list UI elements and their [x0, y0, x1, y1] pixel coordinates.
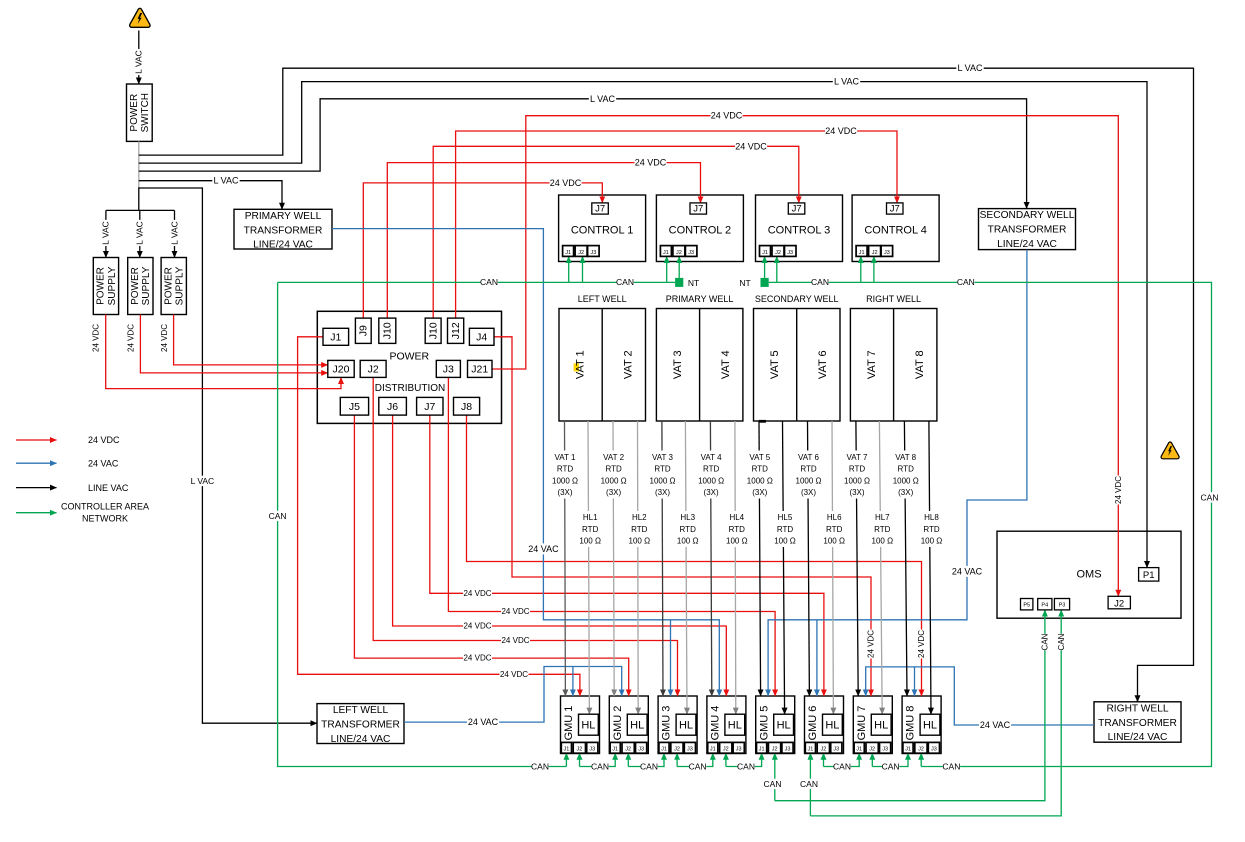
svg-text:J1: J1 — [563, 747, 569, 753]
svg-text:VAT 1: VAT 1 — [574, 350, 586, 379]
svg-text:LEFT WELL: LEFT WELL — [333, 705, 389, 716]
svg-text:J1: J1 — [759, 747, 765, 753]
label CAN (right riser) — [1201, 492, 1218, 502]
svg-text:LINE/24 VAC: LINE/24 VAC — [253, 240, 313, 251]
svg-text:1000 Ω: 1000 Ω — [650, 476, 676, 485]
svg-text:L VAC: L VAC — [135, 221, 145, 245]
label 24 VDC (GMU feed y=626.0) — [463, 621, 492, 631]
svg-text:CAN: CAN — [591, 761, 609, 771]
svg-text:CAN: CAN — [1041, 633, 1050, 650]
svg-text:VAT 4: VAT 4 — [701, 453, 722, 462]
svg-text:CONTROL 4: CONTROL 4 — [864, 225, 927, 237]
svg-text:TRANSFORMER: TRANSFORMER — [321, 720, 400, 731]
label: VAT 4 RTD 1000 ohm (3X) — [694, 451, 728, 499]
svg-text:J6: J6 — [387, 401, 398, 413]
legend: LINE VAC — [16, 487, 57, 489]
svg-text:NETWORK: NETWORK — [82, 514, 128, 524]
svg-text:1000 Ω: 1000 Ω — [796, 476, 822, 485]
connector J3 (control 3) — [785, 246, 797, 257]
wire: HL4 RTD sensor to GMU 4 HL — [734, 421, 737, 714]
GMU 2 box — [609, 696, 648, 754]
svg-text:LINE/24 VAC: LINE/24 VAC — [997, 239, 1057, 250]
svg-text:RTD: RTD — [923, 525, 940, 534]
connector J3 (control 4) — [881, 246, 893, 257]
legend: CONTROLLER AREA NETWORK — [16, 512, 57, 514]
connector J1 (control 2) — [660, 246, 671, 257]
svg-text:J10: J10 — [427, 322, 439, 339]
svg-text:24 VDC: 24 VDC — [88, 435, 120, 445]
HL box (GMU 2) — [627, 714, 647, 735]
wire 24 VDC: J10 to CONTROL 3 J7 — [433, 146, 799, 318]
power switch — [127, 84, 153, 141]
svg-text:RTD: RTD — [680, 525, 697, 534]
svg-text:24 VDC: 24 VDC — [126, 324, 135, 352]
black tick on VAT 5 box bottom — [759, 420, 766, 423]
svg-text:VAT 7: VAT 7 — [866, 350, 878, 379]
connector J7 (control 4) — [887, 203, 904, 214]
svg-text:RTD: RTD — [703, 465, 720, 474]
wire: VAT 7 RTD sensor to GMU 7 — [856, 421, 858, 696]
svg-text:SECONDARY WELL: SECONDARY WELL — [755, 294, 839, 304]
wire CAN: GMU 5 J2 to OMS P4 — [774, 753, 776, 801]
svg-text:J2: J2 — [368, 364, 379, 376]
svg-text:GMU 7: GMU 7 — [856, 706, 868, 741]
svg-text:100 Ω: 100 Ω — [726, 537, 748, 546]
GMU 1 box — [561, 696, 600, 754]
svg-text:LEFT WELL: LEFT WELL — [578, 294, 627, 304]
svg-text:J9: J9 — [358, 325, 370, 336]
wire 24 VDC: J21 to OMS J2 — [492, 116, 1118, 597]
HL box (GMU 1) — [579, 714, 599, 735]
wire 24 VDC: J2 to GMU 3 — [373, 377, 677, 696]
connector J7 (control 3) — [788, 203, 805, 214]
svg-text:(3X): (3X) — [655, 488, 670, 497]
connector J3 (GMU 2) — [636, 742, 647, 753]
wire L VAC into power supply 2 — [139, 210, 141, 257]
svg-text:24 VDC: 24 VDC — [825, 126, 857, 136]
svg-text:24 VDC: 24 VDC — [160, 324, 169, 352]
connector J21 (power distribution) — [468, 360, 493, 377]
svg-text:J1: J1 — [612, 747, 618, 753]
svg-text:VAT 6: VAT 6 — [798, 453, 819, 462]
svg-text:J3: J3 — [882, 747, 888, 753]
connector J2 (OMS) — [1108, 596, 1130, 609]
svg-text:GMU 2: GMU 2 — [612, 706, 624, 741]
svg-text:POWER: POWER — [163, 267, 174, 305]
svg-text:J2: J2 — [578, 250, 584, 256]
svg-text:J7: J7 — [424, 401, 435, 413]
svg-text:J7: J7 — [792, 204, 802, 215]
svg-text:J2: J2 — [869, 747, 875, 753]
svg-text:L VAC: L VAC — [957, 63, 983, 73]
svg-text:NT: NT — [739, 278, 750, 288]
svg-text:VAT 3: VAT 3 — [652, 453, 673, 462]
GMU 4 box — [707, 696, 746, 754]
label L VAC (power supply 2) — [135, 220, 145, 246]
control 1 box — [559, 195, 646, 262]
label: VAT 3 RTD 1000 ohm (3X) — [646, 451, 680, 499]
svg-text:RTD: RTD — [631, 525, 648, 534]
connector P3 (OMS) — [1054, 599, 1069, 610]
svg-text:L VAC: L VAC — [134, 50, 144, 74]
connector J3 (control 1) — [588, 246, 600, 257]
svg-text:J12: J12 — [450, 322, 462, 339]
yellow highlight on VAT 1 — [574, 363, 579, 371]
legend: 24 VAC — [16, 462, 57, 464]
svg-text:J3: J3 — [787, 250, 793, 256]
label L VAC (power supply 3) — [169, 220, 179, 246]
svg-text:P1: P1 — [1143, 570, 1155, 581]
label CAN (GMU chain x=842.0) — [833, 761, 850, 771]
label: VAT 2 RTD 1000 ohm (3X) — [597, 451, 631, 499]
label 24 VAC (right transformer) — [979, 719, 1011, 730]
wire 24 VDC: J9 to CONTROL 1 J7 — [363, 183, 602, 318]
svg-text:J7: J7 — [890, 204, 900, 215]
svg-text:J8: J8 — [461, 401, 472, 413]
connector J10 second (power distribution) — [425, 318, 441, 343]
svg-text:L VAC: L VAC — [101, 221, 111, 245]
svg-text:J2: J2 — [820, 747, 826, 753]
control 3 box — [756, 195, 843, 262]
label CAN (OMS P4 riser) — [1040, 634, 1050, 651]
svg-text:HL6: HL6 — [827, 513, 842, 522]
connector J2 (power distribution) — [360, 360, 386, 377]
wire CAN: GMU 3 J2 to GMU 4 J1 — [676, 753, 678, 766]
svg-text:RTD: RTD — [729, 525, 746, 534]
svg-text:(3X): (3X) — [849, 488, 864, 497]
svg-text:HL: HL — [581, 720, 595, 732]
label: HL1 RTD 100 ohm — [576, 511, 604, 547]
svg-text:J2: J2 — [723, 747, 729, 753]
connector J3 (GMU 5) — [782, 742, 793, 753]
connector J2 (GMU 3) — [671, 742, 683, 753]
legend: 24 VDC — [16, 439, 57, 441]
right well box (VAT 7 / VAT 8) — [850, 309, 937, 422]
svg-text:HL: HL — [874, 720, 888, 732]
svg-text:J1: J1 — [565, 250, 571, 256]
svg-text:SUPPLY: SUPPLY — [175, 266, 186, 305]
svg-text:(3X): (3X) — [557, 488, 572, 497]
label CAN (GMU chain x=890.6) — [882, 761, 899, 771]
svg-text:1000 Ω: 1000 Ω — [893, 476, 919, 485]
wire CAN: left bus to CONTROL 1 / CONTROL 2 — [278, 281, 675, 283]
connector J5 (power distribution) — [340, 397, 368, 415]
svg-text:VAT 5: VAT 5 — [769, 350, 781, 379]
svg-text:24 VDC: 24 VDC — [501, 607, 529, 616]
wire L VAC branch D: switch to primary well transformer — [139, 181, 282, 210]
label: VAT 1 RTD 1000 ohm (3X) — [548, 451, 582, 499]
svg-text:24 VAC: 24 VAC — [952, 567, 983, 577]
svg-text:SWITCH: SWITCH — [140, 93, 151, 132]
svg-text:OMS: OMS — [1076, 569, 1101, 581]
svg-text:CAN: CAN — [269, 511, 287, 521]
svg-text:J7: J7 — [595, 204, 605, 215]
label L VAC (to primary transformer) — [212, 175, 239, 186]
label CAN (control 1-2 bus) — [616, 277, 633, 287]
svg-text:CAN: CAN — [811, 277, 829, 287]
svg-text:HL: HL — [630, 720, 644, 732]
svg-text:CONTROL 2: CONTROL 2 — [669, 225, 732, 237]
left well box (VAT 1 / VAT 2) — [559, 309, 646, 422]
label 24 VDC (control 3 feed) — [735, 141, 767, 152]
HL box (GMU 5) — [774, 714, 794, 735]
svg-text:L VAC: L VAC — [590, 94, 616, 104]
svg-text:24 VDC: 24 VDC — [500, 670, 528, 679]
svg-text:J2: J2 — [918, 747, 924, 753]
wire: VAT 2 RTD sensor to GMU 2 — [613, 421, 614, 696]
svg-text:J3: J3 — [833, 747, 839, 753]
svg-text:J2: J2 — [772, 747, 778, 753]
svg-text:VAT 6: VAT 6 — [817, 350, 829, 379]
label: HL5 RTD 100 ohm — [771, 511, 799, 547]
power distribution box — [317, 311, 501, 423]
svg-text:RTD: RTD — [777, 525, 794, 534]
svg-text:CAN: CAN — [942, 761, 960, 771]
label L VAC (top line A) — [956, 63, 983, 74]
wire: HL6 RTD sensor to GMU 6 HL — [832, 421, 833, 714]
svg-text:J2: J2 — [625, 747, 631, 753]
secondary well transformer — [979, 209, 1076, 250]
svg-text:24 VDC: 24 VDC — [711, 111, 743, 121]
connector J3 (GMU 1) — [587, 742, 598, 753]
svg-text:J1: J1 — [710, 747, 716, 753]
connector J9 (power distribution) — [355, 318, 371, 343]
svg-text:RTD: RTD — [898, 465, 915, 474]
svg-text:RIGHT WELL: RIGHT WELL — [1106, 703, 1168, 714]
svg-text:GMU 3: GMU 3 — [661, 706, 673, 741]
wire: VAT 8 RTD sensor to GMU 8 — [904, 421, 907, 696]
svg-text:24 VAC: 24 VAC — [468, 717, 499, 727]
OMS box — [997, 531, 1181, 618]
svg-text:SUPPLY: SUPPLY — [107, 266, 118, 305]
connector J2 (control 3) — [772, 246, 784, 257]
wire CAN: left riser down to GMU 1 J1 — [278, 282, 567, 766]
svg-text:100 Ω: 100 Ω — [774, 537, 796, 546]
label 24 VDC (GMU feed y=674.3) — [500, 669, 529, 679]
GMU 5 box — [756, 696, 795, 754]
wire 24 VDC: J6 to GMU 4 — [393, 415, 727, 696]
label 24 VDC (GMU feed y=658.1) — [463, 653, 492, 663]
label: HL4 RTD 100 ohm — [723, 511, 751, 547]
wire CAN: GMU 2 J2 to GMU 3 J1 — [627, 753, 629, 766]
label: HL6 RTD 100 ohm — [820, 511, 848, 547]
connector J20 (power distribution) — [328, 360, 354, 377]
label 24 VDC (control 4 feed) — [825, 125, 857, 136]
label: VAT 7 RTD 1000 ohm (3X) — [840, 451, 874, 499]
svg-text:(3X): (3X) — [898, 488, 913, 497]
svg-text:RTD: RTD — [654, 465, 671, 474]
svg-text:J2: J2 — [576, 747, 582, 753]
svg-text:CAN: CAN — [689, 761, 707, 771]
svg-text:100 Ω: 100 Ω — [677, 537, 699, 546]
svg-text:24 VAC: 24 VAC — [88, 458, 119, 468]
connector J7 (control 1) — [592, 203, 609, 214]
svg-text:CONTROL 1: CONTROL 1 — [571, 225, 634, 237]
primary well transformer — [234, 209, 332, 249]
svg-text:24 VDC: 24 VDC — [735, 141, 767, 151]
svg-text:J3: J3 — [688, 250, 694, 256]
svg-text:DISTRIBUTION: DISTRIBUTION — [375, 383, 446, 394]
svg-text:24 VDC: 24 VDC — [917, 630, 926, 658]
svg-text:(3X): (3X) — [606, 488, 621, 497]
svg-text:J3: J3 — [443, 364, 454, 376]
svg-text:HL2: HL2 — [632, 513, 647, 522]
primary well box (VAT 3 / VAT 4) — [656, 309, 743, 422]
svg-text:J3: J3 — [687, 747, 693, 753]
wire L VAC branch B: switch to OMS P1 — [139, 82, 1147, 568]
svg-text:1000 Ω: 1000 Ω — [747, 476, 773, 485]
svg-text:CAN: CAN — [1057, 633, 1066, 650]
svg-text:TRANSFORMER: TRANSFORMER — [1098, 718, 1177, 729]
label 24 VAC (primary riser) — [527, 543, 559, 554]
connector J3 (power distribution) — [436, 360, 460, 377]
wire 24 VAC: left well transformer to GMU 1 / GMU 2 — [404, 667, 622, 723]
label CAN (GMU 6 to OMS) — [800, 779, 817, 789]
wire L VAC branch A: switch to right-well transformer — [139, 68, 1194, 702]
svg-text:VAT 2: VAT 2 — [603, 453, 624, 462]
svg-text:J1: J1 — [856, 747, 862, 753]
svg-text:HL8: HL8 — [924, 513, 939, 522]
power supply 3 — [161, 258, 186, 315]
label: HL7 RTD 100 ohm — [868, 511, 896, 547]
svg-text:24 VDC: 24 VDC — [501, 636, 529, 645]
HL box (GMU 4) — [725, 714, 745, 735]
wire 24 VAC: right well transformer to GMU 7 / GMU 8 — [866, 667, 1094, 725]
wire L VAC into power supply 3 — [174, 210, 176, 257]
connector J3 (GMU 6) — [831, 742, 842, 753]
secondary well box (VAT 5 / VAT 6) — [754, 309, 841, 422]
svg-text:VAT 4: VAT 4 — [720, 350, 732, 379]
wire L VAC: triangle to power switch — [138, 31, 140, 85]
svg-text:HL7: HL7 — [875, 513, 890, 522]
svg-text:1000 Ω: 1000 Ω — [844, 476, 870, 485]
label CAN (OMS P3 riser) — [1056, 634, 1066, 651]
connector J2 (GMU 4) — [720, 742, 732, 753]
svg-text:100 Ω: 100 Ω — [823, 537, 845, 546]
svg-text:GMU 8: GMU 8 — [905, 706, 917, 741]
svg-text:LINE/24 VAC: LINE/24 VAC — [1108, 732, 1168, 743]
GMU 7 box — [853, 696, 892, 754]
connector J7 (power distribution) — [417, 397, 443, 415]
label 24 VDC (GMU 8 riser) — [917, 630, 927, 659]
connector J1 (control 4) — [856, 246, 867, 257]
connector J1 (GMU 5) — [757, 742, 767, 753]
svg-text:CONTROL 3: CONTROL 3 — [768, 225, 831, 237]
connector J1 (GMU 7) — [854, 742, 864, 753]
svg-text:100 Ω: 100 Ω — [921, 537, 943, 546]
svg-text:J1: J1 — [762, 250, 768, 256]
label CAN (GMU chain x=600.0) — [591, 761, 608, 771]
wire: HL3 RTD sensor to GMU 3 HL — [685, 421, 687, 714]
svg-text:VAT 7: VAT 7 — [847, 453, 868, 462]
svg-text:L VAC: L VAC — [191, 476, 215, 486]
wire 24 VAC: secondary well transformer to GMU 5 / GMU 6 — [768, 250, 1027, 696]
svg-text:J7: J7 — [693, 204, 703, 215]
svg-text:LINE VAC: LINE VAC — [88, 483, 129, 493]
svg-text:J2: J2 — [775, 250, 781, 256]
svg-text:RTD: RTD — [874, 525, 891, 534]
label CAN (left riser) — [269, 511, 286, 521]
svg-text:CAN: CAN — [1201, 492, 1219, 502]
label: VAT 6 RTD 1000 ohm (3X) — [792, 451, 826, 499]
svg-text:1000 Ω: 1000 Ω — [552, 476, 578, 485]
svg-text:J1: J1 — [905, 747, 911, 753]
svg-text:RTD: RTD — [800, 465, 817, 474]
HL box (GMU 7) — [871, 714, 891, 735]
svg-text:J1: J1 — [807, 747, 813, 753]
wire: VAT 1 RTD sensor to GMU 1 — [564, 421, 567, 696]
svg-text:HL4: HL4 — [729, 513, 744, 522]
HL box (GMU 3) — [676, 714, 696, 735]
wire 24 VDC: power supply 3 to J20 — [174, 315, 328, 365]
connector J1 (control 3) — [760, 246, 771, 257]
svg-text:POWER: POWER — [96, 267, 107, 305]
svg-text:HL: HL — [923, 720, 937, 732]
label CAN (GMU chain x=746.0) — [737, 761, 754, 771]
svg-text:CAN: CAN — [737, 761, 755, 771]
connector J1 (GMU 3) — [659, 742, 669, 753]
svg-text:PRIMARY WELL: PRIMARY WELL — [666, 294, 734, 304]
svg-text:CAN: CAN — [800, 779, 818, 789]
connector J2 (GMU 7) — [866, 742, 878, 753]
wire 24 VDC: J3 to GMU 5 — [448, 377, 775, 696]
connector J1 (GMU 1) — [561, 742, 571, 753]
svg-text:VAT 8: VAT 8 — [895, 453, 916, 462]
svg-text:GMU 5: GMU 5 — [758, 706, 770, 741]
warning triangle (mains, top-left) — [130, 8, 150, 27]
svg-text:P4: P4 — [1041, 603, 1048, 609]
wire CAN: CONTROL 3/4 bus to GMU 8 J2 via right riser — [769, 282, 1212, 766]
label 24 VDC (GMU feed y=593.3) — [463, 588, 492, 598]
svg-text:POWER: POWER — [129, 94, 140, 132]
svg-text:J3: J3 — [736, 747, 742, 753]
svg-text:(3X): (3X) — [801, 488, 816, 497]
svg-text:POWER: POWER — [130, 267, 141, 305]
svg-text:RTD: RTD — [582, 525, 599, 534]
svg-text:RIGHT WELL: RIGHT WELL — [866, 294, 921, 304]
svg-text:GMU 1: GMU 1 — [563, 706, 575, 741]
wire CAN: GMU 6 J2 to GMU 7 J1 — [823, 753, 825, 766]
svg-text:100 Ω: 100 Ω — [872, 537, 894, 546]
svg-text:HL: HL — [679, 720, 693, 732]
label CAN (control 3-4 bus) — [811, 277, 828, 287]
label CAN (to GMU 1) — [531, 761, 548, 771]
svg-text:L VAC: L VAC — [169, 221, 179, 245]
svg-text:L VAC: L VAC — [834, 77, 860, 87]
label L VAC (switch drop) — [134, 49, 144, 75]
label: HL2 RTD 100 ohm — [625, 511, 653, 547]
svg-text:CONTROLLER AREA: CONTROLLER AREA — [61, 502, 149, 512]
svg-text:J1: J1 — [859, 250, 865, 256]
label 24 VDC (GMU feed y=640.5) — [501, 636, 530, 646]
wire: HL5 RTD sensor to GMU 5 HL — [783, 421, 785, 714]
svg-text:100 Ω: 100 Ω — [629, 537, 651, 546]
label 24 VDC (OMS riser) — [1113, 476, 1123, 505]
svg-text:L VAC: L VAC — [213, 176, 239, 186]
connector J3 (GMU 3) — [684, 742, 695, 753]
wire: HL2 RTD sensor to GMU 2 HL — [637, 421, 640, 714]
label L VAC (power supply 1) — [101, 220, 111, 246]
svg-text:J4: J4 — [476, 331, 487, 343]
label CAN (GMU 5 to OMS) — [764, 779, 781, 789]
svg-text:J2: J2 — [872, 250, 878, 256]
wire 24 VDC: J8 to GMU 8 — [467, 415, 922, 696]
wire CAN: NT stub at CONTROL 2 J2 — [678, 256, 680, 278]
svg-text:VAT 8: VAT 8 — [914, 350, 926, 379]
connector J3 (control 2) — [685, 246, 697, 257]
connector J4 (power distribution) — [469, 328, 494, 345]
connector J1 (power distribution) — [323, 328, 349, 345]
